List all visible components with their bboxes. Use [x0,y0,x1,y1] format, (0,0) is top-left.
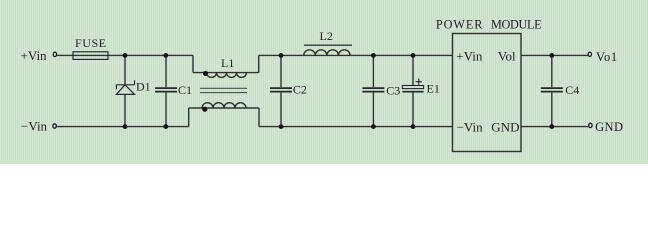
svg-text:C3: C3 [386,83,400,97]
svg-text:POWER: POWER [436,18,483,32]
svg-text:C4: C4 [565,83,579,97]
svg-text:E1: E1 [427,82,440,96]
svg-text:Vo1: Vo1 [596,50,618,64]
svg-text:MODULE: MODULE [491,18,541,32]
svg-text:+Vin: +Vin [21,48,48,63]
svg-text:+Vin: +Vin [456,48,483,63]
svg-text:−Vin: −Vin [457,119,484,134]
svg-text:−Vin: −Vin [21,119,48,134]
svg-text:GND: GND [491,119,519,134]
svg-text:C1: C1 [178,83,192,97]
svg-text:C2: C2 [293,83,307,97]
svg-text:D1: D1 [136,80,151,94]
svg-text:L2: L2 [320,29,333,43]
svg-text:FUSE: FUSE [75,36,107,50]
svg-text:L1: L1 [221,56,234,70]
svg-text:Vol: Vol [498,48,516,63]
svg-text:GND: GND [595,120,623,134]
